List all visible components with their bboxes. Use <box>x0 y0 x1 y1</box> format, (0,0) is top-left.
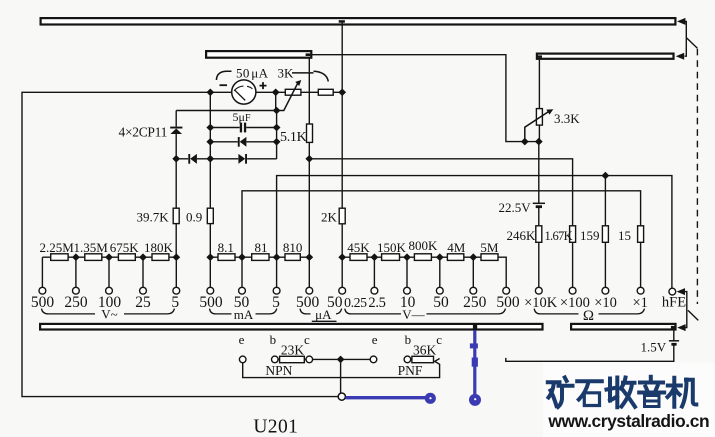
resistor 2.25M <box>51 254 68 261</box>
resistor 39.7K <box>173 208 179 223</box>
svg-text:3.3K: 3.3K <box>554 111 580 126</box>
svg-text:675K: 675K <box>110 240 140 255</box>
svg-text:www.crystalradio.cn: www.crystalradio.cn <box>547 411 709 431</box>
svg-text:e: e <box>372 332 378 347</box>
svg-text:22.5V: 22.5V <box>499 200 532 215</box>
svg-text:8.1: 8.1 <box>218 240 234 255</box>
svg-text:×1: ×1 <box>632 295 647 311</box>
char kuang <box>548 378 573 408</box>
uA underline <box>312 320 337 322</box>
wire: e(NPN) loop to c(PNP) <box>243 359 440 378</box>
svg-text:45K: 45K <box>347 240 370 255</box>
diode D1 (on x=176.2, pointing up) <box>170 127 182 134</box>
svg-text:5: 5 <box>171 294 179 311</box>
svg-text:2.25M: 2.25M <box>40 240 75 255</box>
resistor (meter series, unlabeled) <box>318 89 333 95</box>
svg-text:23K: 23K <box>281 342 305 357</box>
svg-text:5M: 5M <box>480 240 499 255</box>
section bracket V- <box>345 309 506 314</box>
svg-text:mA: mA <box>234 307 254 322</box>
switch wiper arrow into B5 right end <box>677 324 685 331</box>
wire: b(NPN) to 23K to c(NPN) stubs <box>278 358 306 360</box>
svg-text:1.5V: 1.5V <box>641 340 667 355</box>
svg-text:U201: U201 <box>253 417 298 437</box>
svg-text:c: c <box>436 332 442 347</box>
wire: 15 to x1 terminal <box>640 242 642 287</box>
svg-text:810: 810 <box>283 240 303 255</box>
svg-text:15: 15 <box>618 228 631 243</box>
transistor socket circles e b c / e b <box>239 356 410 363</box>
wire: V- range chain <box>342 257 506 287</box>
wire: terminal stubs V~ <box>42 257 176 287</box>
meter group bracket dash after 3K <box>292 72 314 74</box>
capacitor C 5uF plates <box>240 123 242 133</box>
meter group bracket left arc <box>216 71 231 80</box>
svg-text:4M: 4M <box>447 240 466 255</box>
wiper pivot diagonal bottom <box>688 310 698 320</box>
wire: mA50 node across to 15 <box>242 191 641 257</box>
resistor 36K <box>412 356 434 362</box>
svg-text:2K: 2K <box>321 210 338 225</box>
wiper pivot diagonal top <box>686 38 697 49</box>
svg-text:0.25: 0.25 <box>344 295 367 310</box>
watermark chinese characters (drawn strokes) <box>548 377 697 408</box>
meter M 50uA <box>232 80 256 104</box>
svg-text:39.7K: 39.7K <box>137 210 170 225</box>
wire: row y=110.5 (top of diode network) <box>176 110 276 112</box>
svg-text:500: 500 <box>31 294 55 311</box>
bus bar B3 (middle-right switch track) <box>537 54 674 59</box>
svg-text:500: 500 <box>199 294 223 311</box>
resistor 8.1 <box>218 254 235 261</box>
svg-text:1.67K: 1.67K <box>545 229 573 243</box>
rheostat 3.3K body <box>538 59 540 142</box>
svg-text:2.5: 2.5 <box>368 295 385 311</box>
svg-text:81: 81 <box>255 240 268 255</box>
wire: meter row segments <box>210 91 342 93</box>
contact tick on B3 (to 3.3K) <box>538 55 542 57</box>
probe common node circle <box>338 393 345 400</box>
resistor 1.67K <box>570 226 576 243</box>
wire: 246K to x10K terminal <box>538 242 540 287</box>
meter minus sign <box>220 84 228 86</box>
section bracket mA <box>210 309 277 314</box>
svg-text:PNF: PNF <box>398 363 423 378</box>
wire: V~ range chain <box>42 256 176 258</box>
svg-text:b: b <box>270 332 277 347</box>
resistor 81 <box>252 254 269 261</box>
wire: mA5 node across to 159 and hFE <box>277 176 672 288</box>
resistor 5M <box>481 254 498 261</box>
resistor 5.1K <box>307 124 313 142</box>
resistor 180K <box>152 254 169 261</box>
section bracket ohm <box>534 309 644 314</box>
wire: b(PNP) to 36K stub <box>411 358 412 360</box>
wire: 159 to x10 terminal <box>604 242 606 287</box>
svg-text:4×2CP11: 4×2CP11 <box>119 125 168 140</box>
resistor 23K <box>280 356 305 362</box>
contact tick on B5 (to 1.5V cell) <box>671 326 676 329</box>
char yin <box>639 377 664 393</box>
bus bar B5 (bottom-right switch track) <box>571 324 675 330</box>
svg-text:150K: 150K <box>377 240 407 255</box>
svg-text:500: 500 <box>496 294 520 311</box>
switch wiper arrow into B3 right end <box>676 53 684 60</box>
wire: 159 branch <box>604 176 606 226</box>
svg-text:180K: 180K <box>144 240 174 255</box>
battery 22.5V <box>538 142 540 226</box>
potentiometer 3K wiper arrow <box>277 83 298 111</box>
svg-text:5.1K: 5.1K <box>280 130 307 145</box>
svg-text:5μF: 5μF <box>233 110 251 124</box>
wire: 1.67K to x100 terminal <box>572 242 574 287</box>
diode D3 (row 158.8, pointing right) <box>238 154 247 164</box>
char shou <box>607 378 636 408</box>
resistor 150K <box>382 254 400 261</box>
svg-text:36K: 36K <box>413 342 437 357</box>
resistor 246K <box>536 226 542 243</box>
switch wiper arrow into hFE terminal <box>677 288 687 328</box>
svg-text:V~: V~ <box>101 307 117 322</box>
bus bar B1 (top switch track) <box>41 18 676 24</box>
diode D2 (row 141.8, pointing left) <box>238 137 247 147</box>
svg-text:5: 5 <box>272 294 280 311</box>
svg-text:×10K: ×10K <box>524 295 558 311</box>
bus bar B4 (bottom-left switch track) <box>40 324 542 330</box>
section bracket uA <box>300 309 342 314</box>
blue probe lead (negative) <box>346 393 436 404</box>
svg-text:3K: 3K <box>278 66 295 81</box>
section bracket V~ <box>42 309 175 314</box>
wire: B2 right end across to 3.3K wiper junction <box>312 55 539 142</box>
resistor 0.9 <box>207 208 213 223</box>
resistor 15 <box>638 226 644 243</box>
svg-text:159: 159 <box>580 228 600 243</box>
svg-text:μA: μA <box>315 307 332 322</box>
svg-text:×10: ×10 <box>594 295 617 311</box>
watermark background panel <box>543 363 715 437</box>
contact tick on B1 at node to meter <box>339 20 345 23</box>
terminal circles row <box>39 287 676 295</box>
char shi <box>577 381 602 399</box>
wire: terminal stubs mA <box>210 257 276 287</box>
svg-text:250: 250 <box>64 294 88 311</box>
resistor 675K <box>118 254 135 261</box>
wire: row y=141.8 (diode row) <box>210 141 276 143</box>
wire: meter minus vertical x=210.3 with 0.9 resistor branch <box>209 92 211 257</box>
resistor 45K <box>350 254 367 261</box>
char ji <box>668 378 697 407</box>
wire: 5.1K line from B2 tick down to uA500 terminal <box>308 57 310 287</box>
wire: row y=127.5 (capacitor row) <box>210 127 276 129</box>
svg-text:50 μA: 50 μA <box>236 66 269 81</box>
diode D4 (row 158.8 left, pointing left) <box>188 154 197 164</box>
wire: 5.1K bottom across to 1.67K <box>309 159 572 226</box>
contact tick on B4 (probe + connection) <box>473 324 477 329</box>
resistor 4M <box>447 254 463 261</box>
svg-text:c: c <box>304 332 310 347</box>
resistor 810 <box>285 254 300 261</box>
wire: common node drop <box>340 359 342 393</box>
wire: vertical from B1 tick down through meter row to 2K <box>341 22 343 258</box>
svg-text:e: e <box>239 332 245 347</box>
wire: meter plus vertical x=276.6 <box>275 92 278 159</box>
wire: left outer loop (meter minus to probe node) <box>22 92 338 396</box>
resistor 2K <box>339 208 345 224</box>
resistor 159 <box>602 226 608 243</box>
potentiometer 3K body <box>285 89 301 95</box>
svg-text:NPN: NPN <box>265 363 292 378</box>
meter group bracket right arc <box>314 71 329 81</box>
blue probe lead (positive, from B4) <box>469 330 481 406</box>
rheostat 3.3K wiper arrow <box>525 111 549 141</box>
bus bar B2 (middle-left switch track) <box>206 51 311 58</box>
wire: terminal stubs V- <box>374 257 473 287</box>
battery 1.5V <box>506 330 674 362</box>
wire: 2K / uA50 node down to terminal <box>341 257 343 287</box>
meter plus sign <box>260 82 267 89</box>
wire: left diode branch x=176.2 with 39.7K <box>175 111 177 258</box>
svg-text:50: 50 <box>433 294 449 311</box>
svg-text:25: 25 <box>135 294 151 311</box>
contact tick on B2 (to 5.1K line) <box>306 53 311 56</box>
resistor 1.35M <box>85 254 102 261</box>
svg-text:800K: 800K <box>408 238 438 253</box>
svg-text:250: 250 <box>463 294 487 311</box>
resistor 800K <box>414 254 431 261</box>
transistor socket wire c(NPN) to e(PNP) <box>313 358 370 360</box>
wire: row y=158.8 (diode row bottom) <box>176 158 276 160</box>
svg-text:hFE: hFE <box>662 295 686 311</box>
wire: mA shunt chain <box>210 256 309 258</box>
svg-text:1.35M: 1.35M <box>73 240 108 255</box>
junction dots (diamonds) <box>72 89 609 364</box>
svg-text:0.9: 0.9 <box>186 210 202 225</box>
svg-text:b: b <box>405 332 412 347</box>
svg-text:V—: V— <box>402 307 425 322</box>
svg-text:Ω: Ω <box>583 308 594 324</box>
dashed selector shaft line <box>696 49 698 304</box>
switch wiper arrow into B1 right end <box>677 18 686 56</box>
svg-text:246K: 246K <box>507 228 537 243</box>
